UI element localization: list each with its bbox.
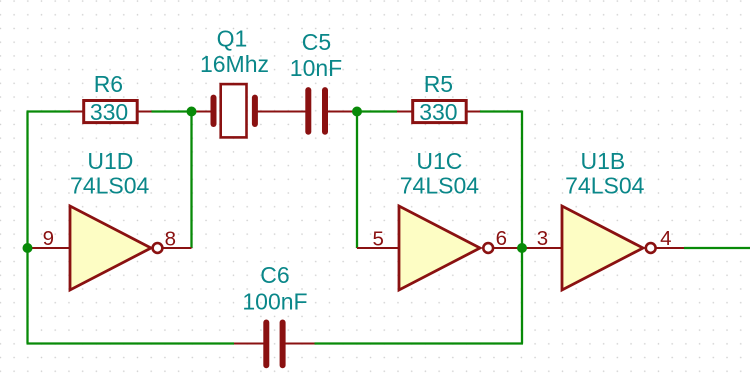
svg-text:74LS04: 74LS04 [565, 173, 645, 199]
svg-text:Q1: Q1 [217, 26, 248, 52]
svg-text:U1D: U1D [87, 148, 133, 174]
wire R6 output to node A [152, 110, 192, 112]
R6 pin 2 lead [138, 111, 152, 113]
Q1 left electrode plate [211, 98, 217, 124]
wire node B vertical drop to pin 5 [356, 112, 358, 249]
junction node C [23, 243, 33, 253]
wire bottom left segment to C6 [27, 342, 235, 344]
svg-text:74LS04: 74LS04 [70, 173, 150, 199]
C5 left plate [305, 90, 311, 132]
junction node D [517, 243, 527, 253]
crystal Q1 [192, 26, 282, 138]
svg-text:10nF: 10nF [290, 55, 342, 81]
C5 pin 2 lead [328, 111, 357, 113]
U1B triangle body [562, 206, 643, 290]
R5 pin 2 lead [467, 111, 480, 113]
svg-text:330: 330 [90, 99, 128, 125]
C6 pin 2 lead [286, 343, 315, 345]
U1D pin 9 lead [28, 247, 71, 249]
junction node B [352, 107, 362, 117]
svg-text:8: 8 [165, 228, 176, 251]
svg-text:4: 4 [660, 227, 671, 250]
U1D pin 8 lead [163, 247, 192, 249]
svg-text:16Mhz: 16Mhz [200, 51, 269, 77]
C6 right plate [280, 323, 286, 366]
resistor R6 [70, 71, 152, 125]
resistor R5 [397, 71, 480, 125]
wire node A vertical drop to pin 8 [190, 112, 192, 249]
Q1 pin 2 lead [257, 111, 281, 113]
C5 pin 1 lead [281, 111, 306, 113]
C6 left plate [263, 323, 269, 366]
C6 pin 1 lead [234, 343, 264, 345]
R6 pin 1 lead [70, 111, 83, 113]
wire right vertical bus [521, 111, 523, 344]
svg-text:5: 5 [372, 228, 383, 251]
inverter gate U1B [522, 148, 684, 290]
U1C triangle body [399, 206, 480, 290]
U1B inversion bubble [646, 243, 656, 253]
capacitor C6 [234, 262, 315, 365]
wire bottom right segment from C6 [315, 342, 524, 344]
wire node B to R5 [357, 110, 397, 112]
inverter gate U1D [28, 148, 192, 290]
svg-text:C6: C6 [260, 262, 289, 288]
svg-text:3: 3 [537, 227, 548, 250]
svg-text:U1B: U1B [581, 148, 626, 174]
U1B pin 4 lead [655, 247, 684, 249]
junction node A [187, 107, 197, 117]
wire left vertical bus [26, 112, 28, 344]
Q1 body rectangle [221, 84, 247, 137]
R6 body [84, 101, 138, 123]
U1C pin 6 lead [492, 247, 522, 249]
svg-text:R5: R5 [424, 71, 453, 97]
svg-text:R6: R6 [94, 71, 123, 97]
U1C inversion bubble [483, 243, 493, 253]
U1C pin 5 lead [357, 247, 399, 249]
wire R5 output to right corner [480, 110, 522, 112]
Q1 right electrode plate [252, 98, 258, 124]
U1B pin 3 lead [522, 247, 562, 249]
svg-text:U1C: U1C [416, 148, 462, 174]
svg-text:6: 6 [496, 227, 507, 250]
svg-text:C5: C5 [302, 29, 331, 55]
capacitor C5 [281, 29, 357, 132]
svg-text:100nF: 100nF [242, 289, 307, 315]
Q1 pin 1 lead [192, 111, 212, 113]
R5 body [413, 101, 467, 123]
U1D inversion bubble [153, 243, 163, 253]
svg-text:74LS04: 74LS04 [400, 173, 480, 199]
svg-text:330: 330 [419, 99, 457, 125]
U1D triangle body [70, 206, 151, 290]
inverter gate U1C [357, 148, 522, 290]
svg-text:9: 9 [43, 227, 54, 250]
C5 right plate [322, 90, 328, 132]
wire output from pin 4 [684, 247, 750, 249]
R5 pin 1 lead [397, 111, 412, 113]
wire top-left horizontal [27, 110, 71, 112]
